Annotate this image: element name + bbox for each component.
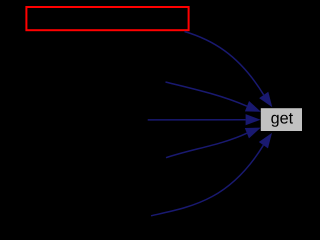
label get [271,113,293,127]
arrowhead edge 2 [245,101,263,117]
edge 5: bottom caller to bottom of get (wire) [151,145,263,216]
arrowhead edge 5 [259,130,277,149]
node get (gray box) [261,108,302,131]
node: caller box (red outline, top-left) [26,7,188,30]
arrowhead edge 1 [259,92,277,111]
edge 2: upper-left caller to get (wire) [166,82,248,106]
edge 4: lower-left caller to get (wire) [166,133,247,158]
arrowhead edge 4 [245,122,263,138]
edge 1: red box to top of get (wire) [185,32,264,95]
arrowhead edge 3 [246,114,261,125]
edge 3: middle-left caller to get (wire) [148,119,246,121]
